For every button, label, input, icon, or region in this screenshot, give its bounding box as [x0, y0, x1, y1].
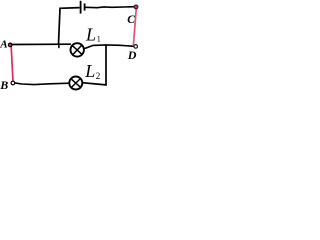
svg-text:L: L — [84, 61, 95, 81]
svg-text:2: 2 — [96, 71, 101, 81]
svg-text:B: B — [0, 78, 8, 92]
svg-text:C: C — [127, 14, 135, 26]
svg-text:A: A — [0, 39, 8, 51]
svg-text:L: L — [85, 24, 96, 44]
svg-text:D: D — [127, 48, 137, 62]
svg-text:1: 1 — [97, 34, 101, 43]
